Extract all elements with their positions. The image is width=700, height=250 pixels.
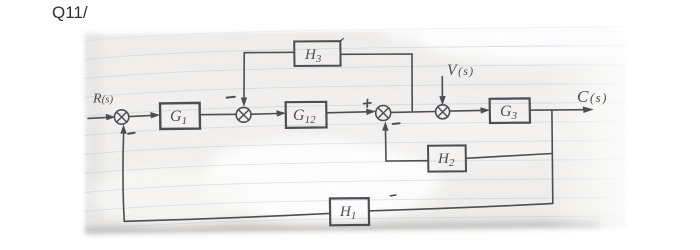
wire S3 to S4 <box>391 111 436 114</box>
block H1 <box>330 198 369 225</box>
block H2 <box>428 145 466 171</box>
wire R(s) input into S1 <box>88 117 107 118</box>
wire feedback up into S1 <box>123 133 124 221</box>
wire V(s) input into S4 <box>441 77 443 98</box>
wire node B down to H1 input <box>369 203 553 211</box>
svg-text:R(s): R(s) <box>92 92 114 107</box>
wire H3 output down into S2 <box>244 52 294 98</box>
summing junction S2 <box>236 107 251 122</box>
svg-text:Q11/: Q11/ <box>52 3 88 22</box>
wire pickoff node A to H3 input <box>341 54 412 111</box>
summing junction S3 <box>376 106 391 121</box>
wire H2 output up into S3 <box>386 130 428 161</box>
stray pen mark <box>391 194 396 197</box>
wire H1 output left segment <box>124 213 329 221</box>
wire S2 to G12 <box>251 113 278 116</box>
minus sign at S1 <box>128 133 134 134</box>
minus sign at S2 <box>227 96 235 99</box>
wire S4 to G3 <box>450 109 482 112</box>
block G1 <box>160 103 200 129</box>
summing junction S1 <box>114 110 128 124</box>
minus sign at S3 lower <box>393 122 400 125</box>
wire S1 to G1 <box>129 115 153 116</box>
block G12 <box>286 102 327 128</box>
svg-text:C(s): C(s) <box>577 87 608 106</box>
wire G12 to S3 <box>327 112 367 113</box>
plus sign at S3 <box>364 99 371 107</box>
svg-text:V(s): V(s) <box>447 62 474 79</box>
summing junction S4 <box>436 105 450 119</box>
wire G1 to S2 <box>200 113 236 115</box>
block G3 <box>490 98 530 123</box>
wire G3 output to C(s) <box>530 109 584 112</box>
block H3 <box>294 41 340 66</box>
wire pickoff node B down from output <box>551 110 554 203</box>
wire node B to H2 input <box>466 154 552 159</box>
